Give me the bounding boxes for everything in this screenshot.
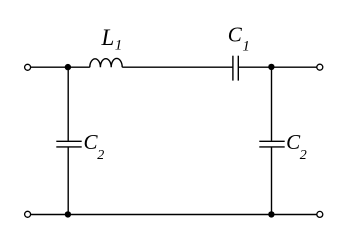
terminal bottom-right [317,211,323,217]
bottom-right junction dot [268,211,274,217]
capacitor C2 left plates [56,140,81,142]
terminal top-left [25,64,31,70]
wire top-left: input terminal to node A [31,66,66,68]
capacitor C2 right plates [259,140,284,142]
wire inductor to capacitor C1 [122,66,233,68]
wire node B down to capacitor C2 right [271,67,273,141]
wire C1 to node B [238,66,316,68]
svg-text:2: 2 [300,148,307,163]
wire node A to inductor [66,66,90,68]
svg-text:1: 1 [115,38,123,54]
svg-text:2: 2 [97,148,104,163]
wire node A down to capacitor C2 left [67,67,69,141]
svg-text:C: C [228,23,243,47]
inductor L1 [90,58,122,67]
wire bottom rail [31,214,317,216]
svg-text:L: L [101,25,115,50]
terminal bottom-left [25,211,31,217]
svg-text:1: 1 [242,38,250,54]
wire C2 right to bottom rail [271,147,273,214]
node A junction dot [65,64,71,70]
terminal top-right [317,64,323,70]
node B junction dot [268,64,274,70]
wire C2 left to bottom rail [67,147,69,214]
capacitor C1 plates [232,56,234,81]
bottom-left junction dot [65,211,71,217]
